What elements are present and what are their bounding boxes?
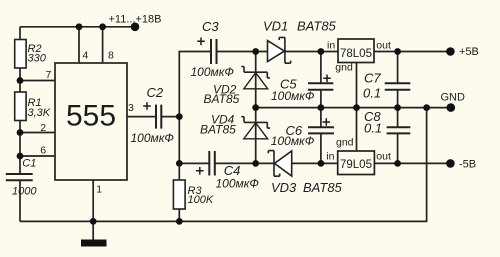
svg-text:100мкФ: 100мкФ <box>191 65 235 79</box>
svg-text:out: out <box>376 151 391 163</box>
svg-text:8: 8 <box>108 50 114 62</box>
svg-text:100мкФ: 100мкФ <box>131 131 175 145</box>
svg-text:1: 1 <box>96 183 102 195</box>
svg-text:100мкФ: 100мкФ <box>271 134 315 148</box>
svg-text:3: 3 <box>128 102 134 114</box>
svg-text:4: 4 <box>83 50 89 62</box>
svg-text:6: 6 <box>40 145 46 157</box>
svg-text:BAT85: BAT85 <box>200 123 236 137</box>
svg-text:3,3K: 3,3K <box>28 107 51 119</box>
svg-text:555: 555 <box>66 99 116 132</box>
svg-text:VD1: VD1 <box>263 18 288 33</box>
svg-text:C2: C2 <box>147 85 164 100</box>
svg-text:0.1: 0.1 <box>363 86 381 101</box>
svg-text:100K: 100K <box>188 194 214 206</box>
svg-text:+11...+18В: +11...+18В <box>109 13 162 25</box>
svg-text:BAT85: BAT85 <box>204 92 240 106</box>
svg-text:C3: C3 <box>202 19 219 34</box>
svg-text:79L05: 79L05 <box>340 159 372 171</box>
svg-text:1000: 1000 <box>12 186 37 198</box>
svg-text:100мкФ: 100мкФ <box>271 89 315 103</box>
svg-text:in: in <box>327 39 335 51</box>
svg-text:in: in <box>326 151 334 163</box>
svg-text:gnd: gnd <box>335 62 353 74</box>
svg-text:BAT85: BAT85 <box>303 180 343 195</box>
svg-text:78L05: 78L05 <box>340 48 372 60</box>
svg-text:C7: C7 <box>364 70 381 85</box>
svg-text:0.1: 0.1 <box>364 121 382 136</box>
svg-text:BAT85: BAT85 <box>297 18 337 33</box>
svg-text:7: 7 <box>46 69 52 81</box>
svg-text:out: out <box>376 39 391 51</box>
svg-text:VD3: VD3 <box>271 180 297 195</box>
svg-text:-5В: -5В <box>459 158 476 170</box>
svg-text:+5В: +5В <box>459 46 479 58</box>
svg-text:C1: C1 <box>22 158 36 170</box>
svg-text:100мкФ: 100мкФ <box>216 177 260 191</box>
svg-text:330: 330 <box>28 52 47 64</box>
svg-text:2: 2 <box>40 122 46 134</box>
svg-text:GND: GND <box>441 91 466 103</box>
svg-text:gnd: gnd <box>336 137 354 149</box>
